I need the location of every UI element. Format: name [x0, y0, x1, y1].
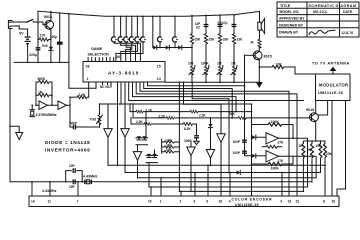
svg-text:12: 12 — [296, 200, 300, 204]
svg-text:8015: 8015 — [264, 55, 272, 59]
svg-text:M: M — [251, 41, 254, 45]
wire riser pin3 — [194, 173, 196, 197]
wire Q3 emitter — [315, 122, 317, 141]
svg-text:9: 9 — [281, 200, 283, 204]
diode pair D7 D8 — [136, 111, 148, 145]
resistor R24 10K — [324, 141, 333, 196]
wire Q3 to modulator — [318, 101, 327, 116]
diode D3 — [178, 45, 182, 49]
inverter G2 — [58, 101, 66, 109]
svg-text:UM1186E-36: UM1186E-36 — [235, 203, 259, 207]
svg-text:MODULATOR: MODULATOR — [319, 83, 348, 88]
wire riser pin1 — [160, 178, 162, 196]
svg-text:UM1111E-36: UM1111E-36 — [318, 90, 344, 95]
game select switch S5 — [121, 16, 140, 62]
wire riser pin7 — [77, 182, 79, 196]
svg-text:DESIGNED BY: DESIGNED BY — [279, 23, 304, 27]
resistor column R13 18K with 0.047u cap — [218, 14, 229, 66]
IC U1 AY-3-8610 — [83, 62, 165, 83]
wire h104 — [100, 103, 252, 105]
antenna arrow — [332, 71, 334, 74]
inverter G7 down — [206, 150, 214, 159]
svg-text:54K: 54K — [229, 112, 236, 116]
bus wire b3 — [138, 177, 317, 179]
game select switch S6 — [116, 16, 146, 62]
svg-text:NC: NC — [117, 55, 122, 59]
left edge long wire — [9, 29, 11, 182]
capacitor 100P b — [233, 151, 247, 155]
ground stub under 100P — [194, 139, 199, 145]
svg-text:1M: 1M — [217, 62, 222, 66]
svg-text:270: 270 — [40, 34, 46, 38]
svg-text:2K: 2K — [299, 144, 304, 148]
svg-text:1M: 1M — [38, 91, 43, 95]
amp input node column — [251, 104, 253, 196]
crystal X1 — [30, 104, 35, 116]
top supply rail — [38, 11, 260, 16]
svg-text:APPROVED BY: APPROVED BY — [279, 17, 305, 21]
resistor R23 10K — [316, 141, 323, 173]
wire riser pin2 — [180, 191, 182, 196]
svg-text:16: 16 — [332, 200, 336, 204]
svg-text:100K: 100K — [201, 62, 209, 66]
wire fan f6 — [129, 82, 304, 101]
svg-text:7: 7 — [77, 200, 79, 204]
inverter G1 — [39, 101, 47, 109]
svg-text:TITLE: TITLE — [280, 4, 291, 8]
wire riser pin11 — [49, 182, 51, 196]
diode pair D9 D10 — [146, 150, 158, 187]
resistor column R12 15K with 14P cap — [204, 15, 215, 66]
bus wire b5 — [149, 186, 308, 188]
pot VR4 1M — [231, 62, 237, 83]
game select switch S1 — [111, 16, 140, 62]
svg-text:3: 3 — [194, 200, 196, 204]
wire riser pin4 — [229, 173, 231, 197]
svg-text:1M: 1M — [231, 62, 236, 66]
svg-text:MG-10-C: MG-10-C — [313, 10, 328, 14]
wire plug sleeve — [11, 26, 28, 36]
svg-text:10: 10 — [148, 200, 152, 204]
wire select diode line — [153, 16, 192, 47]
game select switch S3 — [124, 16, 131, 62]
pot VR1 100 — [188, 62, 195, 83]
capacitor 100P c — [194, 136, 199, 138]
inverter G8 down — [217, 134, 225, 143]
wire modulator output b — [337, 101, 346, 197]
svg-text:14: 14 — [31, 200, 35, 204]
wire pin10 column to inverter — [124, 82, 126, 128]
bus wire b1 — [108, 164, 325, 166]
svg-text:5V6: 5V6 — [42, 44, 48, 48]
svg-text:560K: 560K — [38, 77, 46, 81]
svg-text:10K: 10K — [166, 148, 173, 152]
resistor R21 2K — [299, 141, 305, 191]
svg-text:13K: 13K — [237, 38, 244, 42]
svg-text:100: 100 — [188, 62, 194, 66]
power plug J1 — [8, 21, 12, 29]
svg-text:MODEL NO.: MODEL NO. — [280, 10, 300, 14]
svg-text:3.579545MHz: 3.579545MHz — [36, 113, 57, 117]
svg-text:4.43MHz: 4.43MHz — [83, 175, 98, 179]
bus wire b6 — [179, 190, 303, 192]
svg-text:18K: 18K — [223, 38, 230, 42]
svg-text:27K: 27K — [278, 140, 285, 144]
svg-text:15K: 15K — [209, 38, 216, 42]
svg-text:DIODE = 1N4148: DIODE = 1N4148 — [45, 140, 90, 146]
diode D5 — [252, 135, 256, 139]
inverter G5 down — [133, 152, 141, 161]
svg-text:NC NC: NC NC — [100, 85, 111, 89]
transistor Q1 9013 — [45, 20, 54, 30]
svg-text:15K: 15K — [195, 38, 202, 42]
power switch SW — [27, 19, 33, 22]
modulator box U3 — [316, 74, 351, 101]
wire Q3 collector — [315, 101, 317, 114]
wire emitter rail — [303, 140, 325, 142]
svg-text:X2: X2 — [196, 26, 200, 30]
transistor Q3 9018 — [310, 113, 319, 123]
wire NC pin stubs — [103, 82, 112, 87]
wire Q2 base — [245, 54, 254, 56]
svg-text:10K: 10K — [166, 143, 173, 147]
wire step from rail b — [192, 82, 229, 98]
svg-text:12-8-76: 12-8-76 — [341, 31, 353, 35]
wire step from rail a — [184, 82, 222, 104]
svg-text:GAME: GAME — [91, 47, 103, 51]
svg-text:100μ: 100μ — [50, 35, 57, 39]
svg-text:DATE: DATE — [343, 10, 353, 14]
capacitor 220u — [36, 48, 41, 50]
inverter G6 down — [187, 147, 195, 156]
svg-text:SCHEMATIC DIAGRAM: SCHEMATIC DIAGRAM — [309, 4, 357, 8]
svg-text:AY-3-8610: AY-3-8610 — [108, 71, 139, 76]
svg-text:100K: 100K — [271, 167, 280, 171]
op amp A2 — [266, 151, 284, 163]
wire fan f3 to pin13 — [140, 82, 289, 196]
wire fan f4 to pin12 — [136, 82, 297, 196]
wire fan f1 — [148, 82, 245, 86]
ground rail left — [14, 61, 69, 63]
pot VR3 1M — [217, 62, 223, 83]
wire column x229 — [228, 99, 230, 173]
resistor column R11 15K with 14P cap — [190, 15, 201, 66]
wire to ground symbol — [10, 126, 19, 132]
wire A1 out — [279, 138, 308, 187]
wire Q2 emitter — [258, 60, 260, 68]
svg-text:9018: 9018 — [306, 108, 314, 112]
svg-text:14: 14 — [157, 77, 161, 81]
wire riser pin14 — [31, 182, 33, 196]
svg-text:TO TV ANTENNA: TO TV ANTENNA — [312, 61, 350, 66]
wire fan f5 — [133, 82, 237, 112]
wire modulator output down to pin16 — [331, 101, 333, 197]
svg-text:2.2K: 2.2K — [199, 114, 206, 118]
diode D2 — [166, 45, 170, 49]
wire pot ground rail — [165, 81, 259, 83]
pot VR2 100K — [201, 62, 209, 83]
capacitor 100P a — [233, 140, 247, 144]
resistor 1M speaker — [251, 30, 262, 48]
wire osc output column — [69, 97, 71, 127]
wire pin9 column — [120, 82, 122, 104]
crystal X2 4.43MHz — [83, 175, 98, 184]
game select switch S2 — [118, 16, 135, 62]
wire Q1 collector to top rail — [50, 11, 52, 21]
svg-text:10K: 10K — [316, 144, 323, 148]
resistor 27K feedback A1 — [266, 145, 277, 148]
svg-text:8.2K: 8.2K — [184, 127, 191, 131]
speaker SP — [258, 11, 265, 33]
op amp A1 — [266, 133, 284, 145]
ground symbol — [16, 133, 23, 140]
svg-text:2: 2 — [180, 200, 182, 204]
wire riser pin9 — [281, 173, 283, 197]
svg-text:4: 4 — [229, 200, 231, 204]
resistor trio 10K — [162, 82, 180, 191]
IC top pin tick stubs — [88, 58, 114, 62]
svg-text:COLOR ENCODER: COLOR ENCODER — [232, 198, 273, 202]
wire Q2 base column — [245, 55, 254, 156]
svg-text:15P: 15P — [69, 185, 76, 189]
resistor 100K bottom — [252, 163, 269, 165]
diode D1 — [153, 45, 157, 49]
wire mid 2.2K chain — [129, 103, 252, 117]
wire switch to Q1 base — [33, 22, 44, 25]
svg-text:15: 15 — [157, 65, 161, 69]
svg-text:10P: 10P — [69, 164, 76, 168]
wire V+ vertical x38 — [37, 11, 39, 62]
ground arrow under Q2 — [258, 67, 260, 82]
diode D11 in bus — [237, 170, 241, 174]
svg-text:SELECTION: SELECTION — [88, 52, 109, 56]
svg-text:INVERTOR=4069: INVERTOR=4069 — [45, 147, 90, 153]
transistor Q2 8015 — [253, 51, 262, 61]
wire plug tip to switch — [11, 21, 27, 23]
signature in drawn-by cell — [309, 30, 335, 34]
wire rail x68.9 corner down under IC — [69, 14, 96, 89]
osc wires — [36, 82, 70, 105]
inverter G3 down — [104, 129, 112, 138]
diode D6 — [252, 154, 256, 158]
wire riser pin6 — [207, 165, 209, 196]
svg-text:220μ: 220μ — [29, 53, 37, 57]
wire fan f2 — [144, 82, 233, 118]
svg-text:11: 11 — [48, 200, 52, 204]
svg-text:9V: 9V — [19, 32, 24, 36]
svg-text:16: 16 — [219, 200, 223, 204]
wire Q3 base line with 2.2K and 54K — [132, 104, 134, 118]
svg-text:13: 13 — [288, 200, 292, 204]
inverter G4 down — [121, 129, 129, 138]
svg-text:0.047μ: 0.047μ — [218, 21, 228, 25]
svg-text:10K: 10K — [326, 152, 333, 156]
wire A2 out — [279, 156, 317, 178]
wire Q1 emitter down — [50, 29, 52, 63]
svg-text:28: 28 — [86, 65, 90, 69]
svg-text:6: 6 — [207, 200, 209, 204]
svg-text:8: 8 — [323, 200, 325, 204]
svg-text:1: 1 — [160, 200, 162, 204]
diode D12 — [208, 124, 212, 128]
game select switch S8 — [172, 16, 177, 48]
game select switch S7 — [157, 16, 162, 48]
svg-text:10K: 10K — [166, 138, 173, 142]
svg-text:4.43MHz: 4.43MHz — [42, 189, 57, 193]
4.43MHz crystal network — [65, 164, 83, 189]
resistor column R14 13K — [232, 14, 243, 66]
bus wire b2 — [125, 172, 321, 174]
title block table — [277, 2, 359, 37]
wire riser pin10 — [150, 187, 152, 196]
IC U2 color encoder — [29, 196, 339, 207]
wire pin8 column to bus — [117, 82, 119, 165]
wire lower 2.2K — [130, 117, 183, 125]
svg-text:YG8: YG8 — [90, 118, 97, 122]
svg-text:100P: 100P — [233, 140, 241, 144]
resistor R22 2K — [307, 141, 313, 182]
wire pin28 column — [88, 82, 90, 97]
bus wire b4 ground return — [10, 181, 312, 183]
svg-text:100P: 100P — [233, 151, 241, 155]
svg-text:DRAWN BY: DRAWN BY — [279, 30, 299, 34]
svg-text:1: 1 — [87, 77, 89, 81]
game select switch S4 — [126, 16, 135, 62]
wire pin27 stub — [95, 82, 97, 88]
